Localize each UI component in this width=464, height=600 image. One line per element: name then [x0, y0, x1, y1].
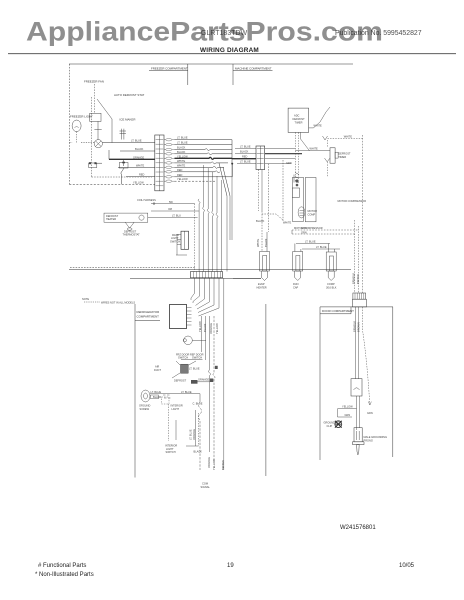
svg-text:WHITE: WHITE [256, 238, 260, 247]
svg-text:YELLOW: YELLOW [177, 154, 188, 158]
svg-text:SWITCH: SWITCH [178, 356, 188, 360]
svg-text:WHITE: WHITE [177, 159, 186, 163]
svg-text:ORANGE: ORANGE [133, 155, 144, 159]
svg-text:3/16 BLK: 3/16 BLK [326, 285, 337, 289]
svg-text:LT. BLUE: LT. BLUE [151, 390, 162, 394]
svg-text:SIGNAL: SIGNAL [201, 485, 211, 489]
svg-text:BLACK: BLACK [256, 219, 265, 223]
svg-text:FREEZER COMPARTMENT: FREEZER COMPARTMENT [151, 66, 188, 70]
svg-text:GRN: GRN [301, 230, 307, 234]
svg-text:LT. BLUE: LT. BLUE [240, 145, 251, 149]
svg-text:* Non-Illustrated Parts: * Non-Illustrated Parts [35, 572, 94, 578]
svg-text:YELLOW: YELLOW [133, 180, 144, 184]
svg-text:DUCT: DUCT [154, 368, 162, 372]
svg-text:SCREW: SCREW [140, 407, 150, 411]
svg-text:BLACK: BLACK [177, 150, 186, 154]
svg-text:SWITCH: SWITCH [170, 239, 180, 243]
svg-text:TIMER: TIMER [338, 155, 346, 159]
svg-text:PRONG: PRONG [364, 438, 373, 442]
svg-text:LIGHT: LIGHT [172, 407, 180, 411]
svg-text:W241576801: W241576801 [340, 525, 376, 531]
svg-text:AUTO DEFROST STAT: AUTO DEFROST STAT [114, 93, 145, 97]
svg-text:BRN/BLK: BRN/BLK [352, 273, 356, 284]
svg-text:WHITE: WHITE [283, 221, 292, 225]
svg-text:19: 19 [227, 563, 234, 569]
svg-text:5W: 5W [169, 200, 173, 204]
svg-text:LT. BLUE: LT. BLUE [177, 141, 188, 145]
svg-text:COIL HARNESS: COIL HARNESS [137, 198, 156, 202]
svg-text:SWITCH: SWITCH [192, 356, 202, 360]
svg-text:DEFROST: DEFROST [174, 379, 187, 383]
svg-text:RED: RED [177, 168, 183, 172]
svg-text:YELLOW: YELLOW [215, 323, 219, 334]
svg-text:GLRT183TDW: GLRT183TDW [201, 30, 248, 37]
svg-text:FREEZER FAN: FREEZER FAN [84, 80, 104, 84]
svg-text:YELLOW: YELLOW [198, 321, 202, 332]
svg-text:HEATER: HEATER [106, 217, 116, 221]
svg-text:WHITE: WHITE [314, 124, 323, 128]
svg-text:WIRES NOT IN ALL MODELS: WIRES NOT IN ALL MODELS [101, 301, 135, 305]
svg-text:LT. BLU: LT. BLU [172, 214, 181, 218]
svg-text:TIMER: TIMER [295, 121, 303, 125]
svg-text:LT. BLUE: LT. BLUE [189, 429, 193, 440]
svg-text:CLIP: CLIP [327, 424, 333, 428]
svg-text:LT. BLUE: LT. BLUE [131, 139, 142, 143]
svg-text:DOOR COMPARTMENT: DOOR COMPARTMENT [322, 309, 354, 313]
svg-text:GRN: GRN [286, 161, 292, 165]
svg-text:MACHINE COMPARTMENT: MACHINE COMPARTMENT [235, 66, 272, 70]
svg-text:ADC: ADC [294, 114, 300, 118]
svg-text:RED: RED [139, 173, 145, 177]
svg-text:CAP: CAP [293, 285, 299, 289]
svg-text:YELLOW: YELLOW [177, 177, 188, 181]
svg-text:SWITCH: SWITCH [166, 450, 176, 454]
svg-text:HEATER: HEATER [257, 285, 267, 289]
svg-text:BROWN: BROWN [221, 460, 225, 470]
svg-text:ORANGE: ORANGE [198, 378, 209, 382]
svg-text:BLACK: BLACK [177, 146, 186, 150]
svg-text:BLACK: BLACK [194, 450, 203, 454]
svg-text:ORANGE: ORANGE [209, 323, 213, 334]
svg-text:WHITE: WHITE [177, 163, 186, 167]
svg-text:WIRING DIAGRAM: WIRING DIAGRAM [200, 47, 259, 54]
svg-text:WHITE: WHITE [310, 147, 319, 151]
svg-text:LT. BLUE: LT. BLUE [177, 136, 188, 140]
svg-text:FREEZER LIGHT: FREEZER LIGHT [70, 115, 93, 119]
svg-text:BRN/BLK: BRN/BLK [353, 321, 357, 332]
svg-text:# Functional Parts: # Functional Parts [38, 563, 86, 569]
svg-text:COMP: COMP [308, 212, 316, 216]
svg-text:GRN: GRN [301, 226, 307, 230]
svg-text:ORANGE: ORANGE [207, 457, 211, 468]
svg-text:LT. BLUE: LT. BLUE [316, 245, 327, 249]
svg-text:YELLOW: YELLOW [342, 405, 353, 409]
svg-text:BLACK: BLACK [135, 147, 144, 151]
svg-text:THERMOSTAT: THERMOSTAT [123, 233, 141, 237]
svg-text:BLACK: BLACK [264, 238, 268, 247]
svg-text:Publication No. 5995452827: Publication No. 5995452827 [335, 30, 422, 37]
svg-text:C. BLUE: C. BLUE [193, 402, 203, 406]
svg-text:YELLOW: YELLOW [212, 459, 216, 470]
svg-text:IC8: IC8 [168, 207, 173, 211]
svg-text:WHITE: WHITE [136, 164, 145, 168]
svg-text:LT. BLUE: LT. BLUE [181, 390, 192, 394]
svg-text:NOTE: NOTE [82, 297, 89, 301]
svg-text:DEFROST: DEFROST [293, 117, 306, 121]
svg-text:LT. BLUE: LT. BLUE [240, 160, 251, 164]
svg-text:GRN: GRN [367, 411, 373, 415]
svg-text:COMPARTMENT: COMPARTMENT [137, 315, 160, 319]
svg-text:BLACK: BLACK [240, 150, 249, 154]
svg-text:BROWN: BROWN [357, 322, 361, 332]
svg-text:BROWN: BROWN [356, 274, 360, 284]
svg-text:ORANGE: ORANGE [192, 429, 196, 440]
svg-text:RED: RED [177, 173, 183, 177]
svg-text:BLACK: BLACK [203, 323, 207, 332]
svg-text:BLACK: BLACK [153, 395, 162, 399]
svg-text:WHITE: WHITE [344, 135, 353, 139]
svg-text:MOTOR COMPRESSOR: MOTOR COMPRESSOR [338, 199, 367, 203]
svg-text:REFRIGERATOR: REFRIGERATOR [137, 310, 160, 314]
svg-text:GRN: GRN [345, 413, 351, 417]
svg-text:10/05: 10/05 [399, 563, 415, 569]
svg-text:LT. BLUE: LT. BLUE [305, 240, 316, 244]
svg-text:LT. BLUE: LT. BLUE [189, 367, 200, 371]
svg-text:MOTOR COMPRESSOR: MOTOR COMPRESSOR [294, 226, 323, 230]
svg-text:ICE MAKER: ICE MAKER [120, 118, 136, 122]
